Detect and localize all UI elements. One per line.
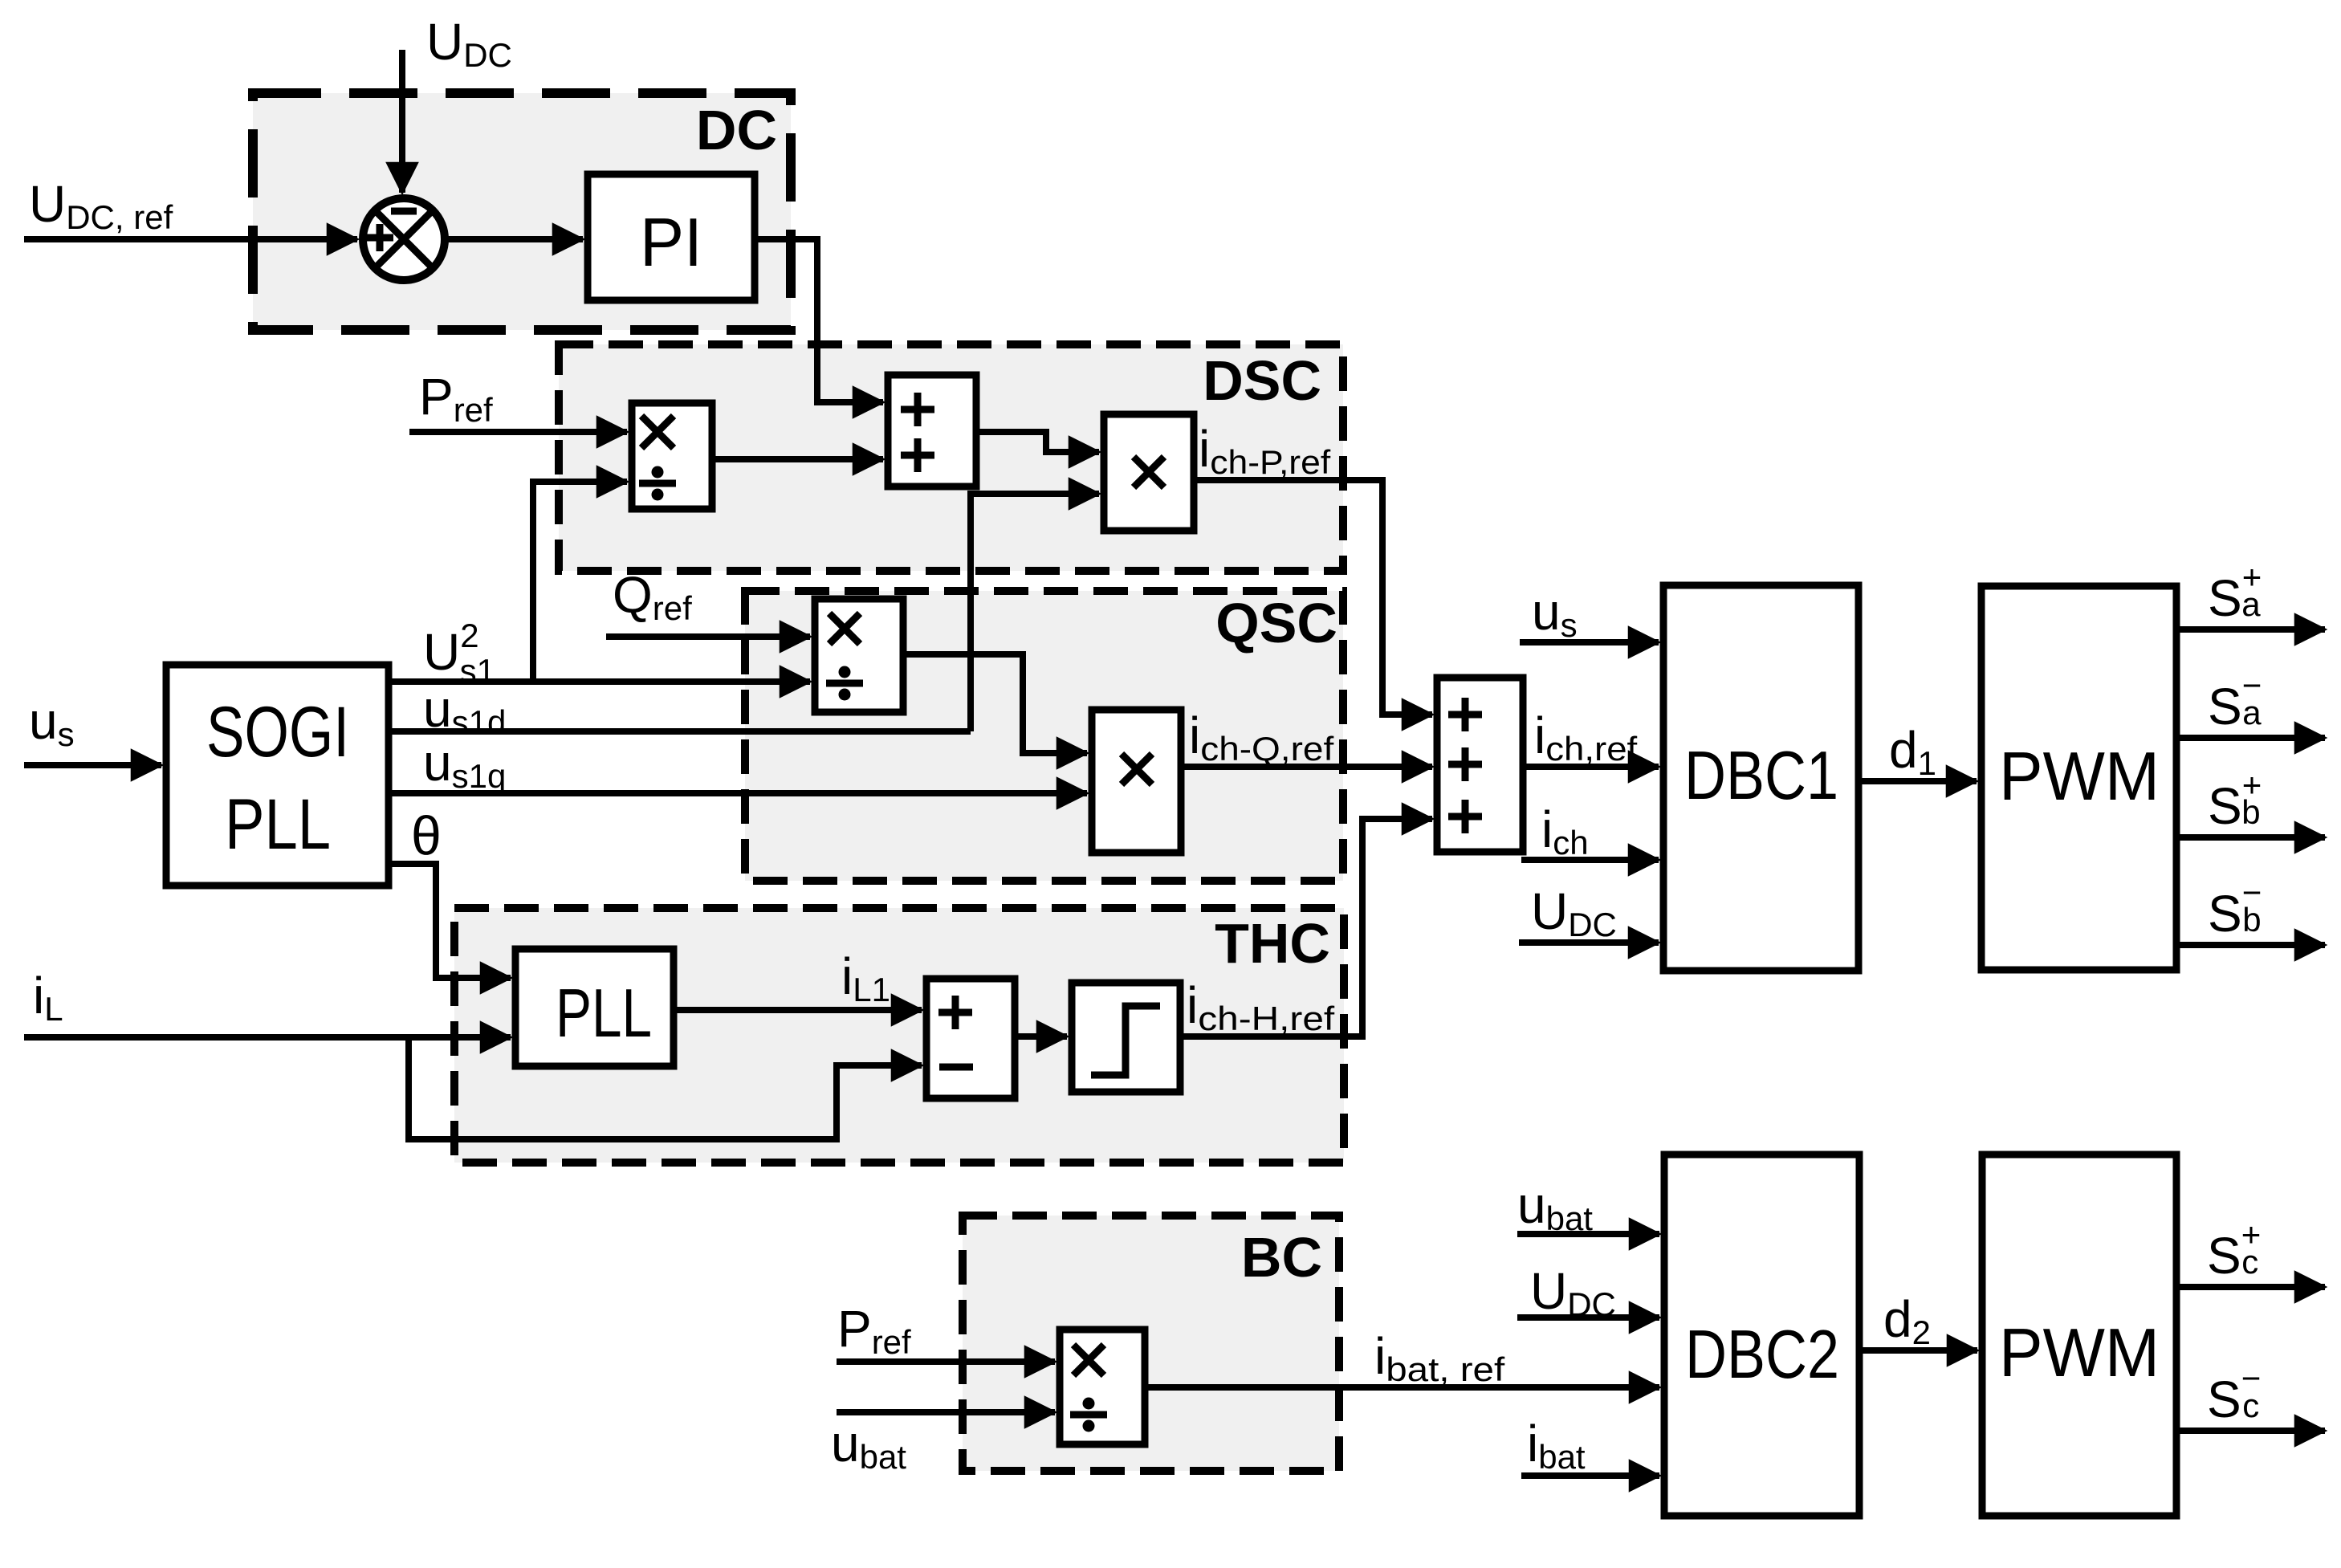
wire i_bat into DBC2 bbox=[1521, 1472, 1659, 1479]
plus sign 3 bbox=[1448, 800, 1482, 833]
wire u_bat into DBC2 bbox=[1517, 1231, 1659, 1237]
wire PLL output i_L1 to subtractor plus input bbox=[674, 1007, 922, 1013]
wire i_ch-P,ref to summing block top input bbox=[1194, 480, 1432, 715]
multiply symbol bbox=[1134, 457, 1164, 487]
divide symbol bbox=[639, 480, 676, 487]
wire d_1 DBC1 to PWM bbox=[1859, 778, 1977, 784]
wire U_DC down into summing junction bbox=[399, 50, 405, 193]
wire u_bat into multiply-divide (BC) bbox=[837, 1409, 1055, 1415]
wire PWM output S_a+ bbox=[2176, 626, 2325, 633]
svg-text:QSC: QSC bbox=[1215, 592, 1337, 654]
svg-text:DBC2: DBC2 bbox=[1685, 1317, 1839, 1393]
wire PWM output S_c+ bbox=[2176, 1284, 2325, 1290]
wire Q_ref into multiply-divide block (QSC) bbox=[606, 633, 810, 640]
DSC dashed box bbox=[559, 344, 1343, 571]
wire u_s into DBC1 bbox=[1520, 639, 1659, 646]
plus sign top bbox=[901, 393, 934, 426]
multiply symbol bbox=[1122, 754, 1152, 784]
wire i_ch,ref to DBC1 bbox=[1523, 764, 1659, 770]
relay block (THC) bbox=[1072, 983, 1180, 1092]
wire i_ch into DBC1 bbox=[1521, 857, 1659, 863]
svg-text:DBC1: DBC1 bbox=[1684, 738, 1838, 814]
relay step symbol bbox=[1091, 1006, 1160, 1075]
wire U_DC,ref into summing junction bbox=[24, 236, 357, 242]
multiply-divide block (BC) bbox=[1060, 1330, 1145, 1444]
wire u_s into SOGI PLL bbox=[24, 762, 161, 768]
wire U_DC into DBC2 bbox=[1517, 1314, 1659, 1321]
svg-text:PLL: PLL bbox=[556, 975, 652, 1052]
multiplier block (DSC) bbox=[1104, 414, 1194, 531]
svg-text:PLL: PLL bbox=[225, 784, 331, 864]
plus sign 1 bbox=[1448, 698, 1482, 731]
wire U_s1^2 to divide input (QSC) bbox=[389, 678, 810, 685]
wire P_ref into multiply-divide (BC) bbox=[837, 1358, 1055, 1365]
multiplier block (QSC) bbox=[1092, 710, 1181, 853]
divide symbol bbox=[826, 680, 863, 687]
wire subtractor to relay bbox=[1015, 1033, 1067, 1040]
PWM block (top) bbox=[1981, 586, 2176, 970]
wire i_ch-Q,ref to summing block middle input bbox=[1181, 764, 1432, 770]
wire PI output to DSC adder top input bbox=[755, 239, 883, 402]
multiply symbol bbox=[641, 416, 674, 448]
wire d_2 DBC2 to PWM bbox=[1859, 1347, 1977, 1354]
PLL block (THC) bbox=[515, 949, 674, 1066]
wire i_L branch to subtractor minus input bbox=[409, 1037, 922, 1139]
svg-text:DSC: DSC bbox=[1203, 349, 1321, 412]
multiply-divide block (DSC) bbox=[632, 403, 712, 509]
divide symbol bbox=[1070, 1411, 1107, 1419]
svg-text:PWM: PWM bbox=[1999, 739, 2160, 815]
svg-text:DC: DC bbox=[696, 99, 777, 161]
svg-text:SOGI: SOGI bbox=[206, 691, 349, 772]
wire PWM output S_a- bbox=[2176, 735, 2325, 741]
wire Us1^2 branch up into divide input bbox=[533, 482, 627, 682]
plus sign 2 bbox=[1448, 747, 1482, 781]
minus sign bbox=[939, 1064, 973, 1071]
DBC2 block bbox=[1664, 1155, 1859, 1516]
wire i_L to PLL bottom input bbox=[24, 1034, 511, 1041]
wire P_ref into multiply-divide block bbox=[409, 429, 627, 435]
wire adder output to multiplier (DSC) bbox=[976, 432, 1099, 452]
wire summing junction to PI bbox=[447, 236, 583, 242]
plus sign bbox=[938, 996, 972, 1029]
wire PWM output S_b- bbox=[2176, 942, 2325, 948]
svg-text:PWM: PWM bbox=[1999, 1315, 2160, 1391]
DBC1 block bbox=[1663, 585, 1859, 971]
THC dashed box bbox=[454, 908, 1344, 1163]
wire theta to PLL top input bbox=[389, 864, 511, 978]
plus sign bottom bbox=[901, 438, 934, 472]
DC controller dashed box bbox=[253, 93, 791, 330]
multiply-divide block (QSC) bbox=[815, 599, 903, 712]
PWM block (bottom) bbox=[1982, 1155, 2176, 1516]
adder block ++ (DSC) bbox=[888, 375, 976, 487]
wire multiply-divide output to adder bbox=[712, 456, 883, 462]
wire i_bat,ref to DBC2 bbox=[1145, 1384, 1659, 1391]
wire u_s1q to multiplier bottom input (QSC) bbox=[389, 790, 1087, 796]
svg-text:PI: PI bbox=[640, 205, 702, 281]
multiply symbol bbox=[1073, 1345, 1104, 1375]
BC dashed box bbox=[963, 1216, 1339, 1471]
wire u_s1d output bbox=[389, 728, 971, 735]
SOGI PLL block bbox=[166, 665, 389, 886]
wire PWM output S_c- bbox=[2176, 1427, 2325, 1434]
wire i_ch-H,ref to summing block bottom input bbox=[1180, 819, 1432, 1037]
svg-text:BC: BC bbox=[1241, 1226, 1322, 1289]
multiply symbol bbox=[829, 613, 860, 644]
wire U_DC into DBC1 bbox=[1519, 939, 1659, 946]
svg-text:θ: θ bbox=[411, 805, 442, 866]
svg-text:THC: THC bbox=[1215, 912, 1330, 975]
summing block +++ bbox=[1437, 678, 1523, 852]
wire multiply-divide (QSC) output to multiplier (QSC) bbox=[903, 654, 1087, 753]
subtractor block +- (THC) bbox=[926, 979, 1015, 1098]
summing junction (circle with X, + and - signs) bbox=[363, 198, 445, 280]
wire u_s1d branch up into multiplier (DSC) bbox=[971, 494, 1099, 731]
PI block bbox=[588, 174, 755, 300]
wire PWM output S_b+ bbox=[2176, 834, 2325, 841]
QSC dashed box bbox=[745, 591, 1343, 881]
